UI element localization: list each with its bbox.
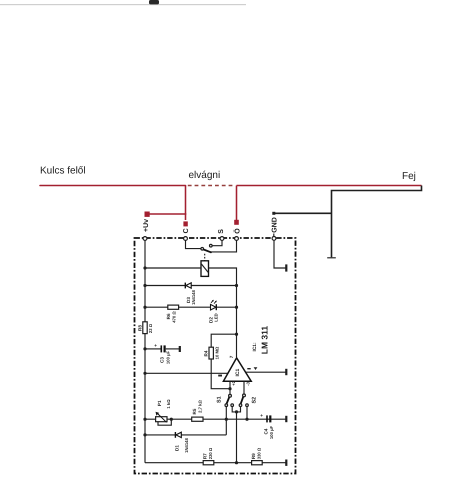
wire: flyback diode row: [145, 285, 237, 287]
node: junction rail/C3: [143, 347, 146, 350]
svg-text:2,7 kΩ: 2,7 kΩ: [197, 400, 202, 413]
node: junction rail/op-amp row: [143, 372, 146, 375]
contact a (S1 outer): [225, 404, 228, 407]
wire: clamp diode row: [145, 434, 226, 436]
contact b (S1 inner): [231, 404, 234, 407]
wire: C terminal into relay contact: [186, 240, 202, 248]
wire: clamp row up to divider: [225, 419, 227, 435]
node: divider stub end bar: [285, 416, 287, 422]
potentiometer P1: [156, 412, 168, 423]
svg-text:100 µF: 100 µF: [166, 350, 171, 364]
wire: red main to headphone (right solid): [237, 185, 422, 187]
wire: LED row: [145, 306, 237, 308]
wire: red drop to C terminal: [185, 186, 187, 221]
wire: red main from key (left solid): [40, 185, 186, 187]
node: junction U-link/ground drop: [235, 410, 238, 413]
svg-text:S1: S1: [217, 396, 223, 403]
pin marks 5 6: [247, 368, 250, 369]
resistor R5: [192, 417, 203, 421]
resistor R8 (in rail): [143, 322, 147, 334]
svg-text:R5: R5: [192, 408, 197, 414]
top cut-off text remnant line: [0, 4, 246, 5]
wire: black headphone down-step: [332, 186, 422, 258]
node: junction R4/plus input: [228, 387, 231, 390]
svg-text:S2: S2: [252, 397, 258, 404]
svg-text:7: 7: [229, 355, 234, 358]
switch S1 pivot: [229, 394, 232, 397]
terminal C: [184, 237, 188, 241]
switch S2 pivot: [243, 394, 246, 397]
svg-text:100 µF: 100 µF: [269, 425, 274, 439]
svg-text:22 Ω: 22 Ω: [148, 323, 153, 333]
svg-text:IC1: IC1: [235, 369, 241, 377]
dashed enclosure box: [135, 238, 296, 474]
svg-text:LM 311: LM 311: [260, 326, 270, 355]
node: C red pad: [183, 221, 187, 226]
wire: contact d drop: [246, 407, 248, 420]
wire: GND dot to terminal: [273, 234, 275, 237]
wire: +Uv left supply rail: [144, 240, 146, 322]
svg-text:GND: GND: [272, 217, 279, 233]
wire: P1 wiper loop: [158, 419, 171, 425]
wire: ground drop to bottom rail: [236, 412, 238, 463]
svg-text:C: C: [183, 228, 190, 233]
svg-text:LED: LED: [213, 313, 218, 321]
node: +Uv red pad: [145, 212, 150, 217]
node: junction rail/clamp row: [143, 433, 146, 436]
svg-text:S: S: [218, 229, 225, 234]
contact c (S2 inner): [239, 404, 242, 407]
wire: R4 down to plus input node: [211, 359, 230, 389]
node: junction contact-d/divider: [245, 418, 248, 421]
svg-text:1N4148: 1N4148: [191, 289, 196, 304]
node: junction output/LED: [235, 306, 238, 309]
wire: GND internal stub: [274, 240, 286, 268]
wire: capacitor C3 row: [145, 348, 161, 350]
svg-text:C4: C4: [264, 428, 269, 434]
node: junction rail/coil wire: [143, 266, 146, 269]
wire: red dashed section to cut (elvágni): [188, 185, 235, 187]
svg-text:Kulcs felől: Kulcs felől: [40, 166, 86, 177]
wire: hysteresis branch (output to R4): [211, 334, 236, 347]
svg-text:1 kΩ: 1 kΩ: [166, 399, 171, 409]
resistor R4: [209, 347, 213, 359]
capacitor C4 (electrolytic): [260, 413, 270, 423]
svg-text:-3: -3: [246, 381, 251, 385]
svg-text:+: +: [154, 343, 157, 348]
wire: rail to op-amp left pin row: [145, 372, 229, 374]
node: relay contact pivot: [201, 248, 204, 251]
svg-text:IC1:: IC1:: [252, 342, 258, 351]
svg-text:10 MΩ: 10 MΩ: [215, 346, 220, 359]
diode D3 (flyback): [185, 283, 191, 289]
wire: inner contacts U-link: [232, 407, 240, 412]
pin 3 lead (minus input): [243, 381, 245, 394]
resistor R6: [168, 305, 179, 309]
terminal S: [220, 237, 224, 241]
switch S2 blade: [241, 397, 244, 404]
wire: C3 to stub: [166, 348, 180, 350]
wire: red drop to Ö terminal: [236, 186, 238, 221]
node: junction output/R4: [235, 333, 238, 336]
wire: contact a drop: [225, 407, 227, 420]
svg-text:220 Ω: 220 Ω: [208, 447, 213, 459]
wire: op-amp right pin row to stub: [246, 371, 286, 373]
resistor R9: [252, 461, 263, 465]
terminal GND: [272, 237, 276, 241]
resistor R7: [203, 461, 214, 465]
svg-text:Ö: Ö: [233, 228, 241, 234]
pin mark 4: [218, 375, 222, 377]
svg-text:470 Ω: 470 Ω: [171, 311, 176, 323]
node: S fixed contact: [210, 244, 213, 247]
node: headphone wire end tick: [327, 257, 336, 259]
node: junction ground-drop/bottom rail: [235, 461, 238, 464]
relay mechanical link (dashed): [204, 254, 206, 261]
node: junction output/D3: [235, 284, 238, 287]
svg-text:R8: R8: [137, 325, 142, 331]
svg-text:+: +: [260, 413, 263, 418]
svg-text:R4: R4: [204, 350, 209, 356]
relay contact blade (to Ö side): [203, 249, 210, 252]
pin 2 lead (plus input): [229, 381, 231, 394]
svg-text:Fej: Fej: [402, 171, 416, 182]
wire: black GND lead: [274, 212, 332, 214]
svg-text:+2: +2: [231, 380, 236, 385]
wire: blade tip to Ö terminal: [212, 240, 237, 252]
node: GND junction dot: [272, 212, 275, 215]
node: junction contact-a/divider: [225, 418, 228, 421]
diode D1 (clamp): [175, 432, 181, 438]
terminal +Uv: [143, 237, 147, 241]
relay coil K1: [201, 261, 209, 277]
node: C3 stub end bar: [179, 346, 181, 352]
node: Ö red pad: [234, 220, 239, 225]
node: op-amp stub end bar: [285, 369, 287, 375]
wire: relay coil right to output net: [209, 268, 237, 357]
node: blade tip dot: [210, 251, 212, 253]
node: junction loop/divider: [170, 418, 173, 421]
wire: red branch to +Uv: [148, 213, 186, 215]
contact d (S2 outer): [246, 404, 249, 407]
svg-text:D1: D1: [174, 445, 179, 451]
wire: rail to relay coil left: [145, 267, 201, 269]
node: junction rail/LED row: [143, 306, 146, 309]
capacitor C3 (electrolytic): [154, 343, 164, 352]
svg-text:330 Ω: 330 Ω: [256, 447, 261, 459]
svg-text:P1: P1: [157, 400, 162, 406]
node: bottom stub end bar: [285, 460, 287, 466]
wire: S terminal to fixed contact: [212, 240, 222, 245]
svg-text:C3: C3: [160, 357, 165, 363]
svg-text:+Uv: +Uv: [143, 219, 150, 232]
svg-text:R6: R6: [166, 313, 171, 319]
node: junction rail/D3: [143, 284, 146, 287]
LED D2: [211, 300, 217, 311]
top cut-off glyph blob: [149, 0, 159, 4]
svg-text:elvágni: elvágni: [189, 170, 221, 181]
node: junction rail/divider: [143, 418, 146, 421]
wire: bottom rail: [145, 462, 286, 464]
svg-text:1N4148: 1N4148: [184, 437, 189, 452]
terminal Ö: [235, 237, 239, 241]
switch S1 blade: [227, 397, 230, 404]
node: GND stub end bar: [285, 264, 287, 271]
op-amp U1 LM311: [223, 358, 251, 381]
wire: divider row (pot): [145, 418, 286, 420]
